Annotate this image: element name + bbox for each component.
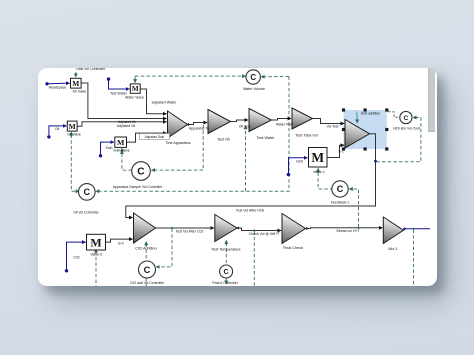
controller C C02 add Vol [138,261,155,278]
output port diamond Final Check [305,226,308,229]
wire dashed below C02-add C to page edge [145,278,147,286]
wire dashed from Stream wire up into Feedback-1 C [349,189,358,227]
output port diamond Mix-1 [402,227,405,230]
svg-text:Oil Valve: Oil Valve [67,132,81,136]
wire dashed tap x202 down into Apparatus-Sample C [151,124,203,169]
svg-text:Soln Valve: Soln Valve [113,148,130,152]
svg-text:Test Vol After C02: Test Vol After C02 [175,229,203,233]
svg-text:Test Vol After H2S: Test Vol After H2S [235,208,264,212]
wire B-4 from Valve-2 into CO2 Addition [105,239,132,242]
wire Test Vol After C02 to Test Temperature [155,227,213,229]
wire Oil Test to Test Water [230,120,248,122]
wire Test Water to Water Valve [108,80,129,89]
svg-text:M: M [131,85,138,93]
node Oil [47,135,50,138]
svg-text:H2S addition: H2S addition [360,111,380,115]
wire dashed Oil Valve bottom down to Oil Vol C [71,134,79,191]
svg-text:Soln: Soln [105,146,112,150]
wire dashed Total-Vol controller line to Water Volume C [135,75,246,77]
svg-text:Oil: Oil [54,127,59,131]
wire green arrow up into CO2-Addition triangle bottom [145,241,147,246]
gain block Mix-1 [383,217,403,244]
svg-text:M: M [68,121,75,130]
svg-text:adjusted Water: adjusted Water [151,100,176,104]
svg-text:Test Oil: Test Oil [217,137,230,141]
green annotation arrow H2S addition [355,111,358,123]
svg-text:M: M [90,235,101,249]
svg-text:Total Vol Controller: Total Vol Controller [75,68,105,71]
node C02 [64,269,67,272]
wire dashed below Valve-2 to page edge [95,251,97,286]
wire dashed Test-Temperature bottom to Final C [225,242,227,265]
junction on feedback wire [374,159,377,162]
node Test Water [106,77,109,80]
svg-text:Water Vlave: Water Vlave [125,95,144,99]
controller C H2S abs Vol [399,111,411,123]
wire Stream w/H+T to Mix-1 [305,226,382,229]
wire green drop into Air Valve top [74,72,76,77]
svg-text:C: C [143,264,150,274]
controller C Water Volume [246,69,260,83]
wire Mix-1 navy output stream [404,227,430,229]
gain block Test Oil [208,109,231,133]
svg-text:Test Water: Test Water [109,91,127,95]
wire Soln to Soln Valve [100,142,113,154]
node Headspace [45,82,48,85]
gain block C02 Addition [133,213,155,243]
valve block M Valve-2 [86,234,105,250]
svg-text:Oil Test: Oil Test [238,124,249,128]
wire Apparatus output to Test Oil [187,122,207,124]
wire S-2 from Valve-1 into selected block [327,145,344,157]
wire Check Vol to Final Check [237,228,281,231]
controller C Final [219,265,232,278]
svg-text:Adjusted Oil: Adjusted Oil [116,123,135,127]
svg-text:Test Temperature: Test Temperature [211,247,240,251]
svg-text:Valve-1: Valve-1 [312,169,324,173]
wire green arrow up into Valve-2 bottom [95,249,97,254]
svg-text:C: C [336,184,343,194]
svg-text:Apparatus-Sample Vol Controlle: Apparatus-Sample Vol Controller [112,185,162,189]
controller C Feedback-1 [331,180,347,196]
node H2S [286,172,290,176]
svg-text:S-2: S-2 [338,149,343,153]
svg-text:C02 add Vol Controller: C02 add Vol Controller [129,280,164,284]
svg-text:M: M [72,78,79,87]
gain block Test Water [249,108,272,131]
wire dashed from Check-Vol wire to page edge [253,231,255,286]
label Adjusted Soln boxed [139,133,169,139]
wire dashed Valve-1 bottom link to Feedback-1 C [318,172,333,189]
wire Adjusted Soln from Soln Valve to Test Apparatus [126,133,166,142]
svg-text:Apparatus Te: Apparatus Te [189,126,209,130]
svg-text:C: C [137,166,145,177]
svg-text:Test Total Vol: Test Total Vol [295,133,317,137]
valve block M Valve-1 [308,147,327,167]
wire dashed tap x245 up to Oil Test wire [244,125,246,191]
gain block Test Total Vol [292,108,313,129]
wire dashed below Mix-1 output to page edge [412,229,414,286]
wire dashed CO2-Addition bottom to C02-add C [145,243,147,261]
svg-text:C: C [223,268,228,276]
wire C02 to Valve-2 [66,242,85,269]
svg-text:Stream w/ H+T: Stream w/ H+T [336,229,360,233]
svg-text:Valve-2: Valve-2 [90,252,102,256]
svg-text:Adjusted Soln: Adjusted Soln [144,134,164,138]
wire dashed Vol-Test tap to H2S-abs C [376,117,421,161]
junction on Check Vol wire [253,229,255,231]
svg-text:C02: C02 [73,255,79,259]
wire green arrow up into Valve-1 bottom [317,168,319,173]
slide card [38,68,437,286]
wire Adjusted Air from Air Valve to Test Apparatus [81,83,166,119]
svg-text:Oil Vol Controller: Oil Vol Controller [73,210,99,214]
wire Adjusted Water from Water Valve to Test Apparatus [140,89,166,114]
gain block Test Apparatus [167,111,187,138]
selection highlight around Vol Test block [343,110,386,149]
svg-text:H2S abs Vol Cont: H2S abs Vol Cont [393,126,420,130]
wire green arrow up into Oil Valve bottom [70,132,72,137]
valve block M Oil Valve [67,121,77,131]
svg-text:Final # Controller: Final # Controller [212,281,239,285]
wire Water Test to Test Total Vol [271,118,291,120]
valve block M Water Valve [130,83,140,92]
junction on Test Vol After C02 wire [170,226,172,228]
svg-text:Test Apparatus: Test Apparatus [165,141,190,145]
svg-text:C02 Addition: C02 Addition [135,246,157,250]
svg-text:Air Valve: Air Valve [72,89,86,93]
wire dashed vertical x288 down to sample line into Oil Vol C [95,76,288,191]
wire dashed from H2S addition block to H2S-abs C [388,111,399,117]
svg-text:Feedback-1: Feedback-1 [330,200,349,204]
junction on Mix-1 output [412,227,414,229]
svg-text:Test Water: Test Water [256,135,275,139]
wire Oil to Oil Valve [48,125,66,134]
svg-text:Headspace: Headspace [48,85,66,89]
controller C Apparatus-Sample [131,161,150,180]
svg-text:M: M [311,150,324,165]
wire dashed into Water Volume C from right [261,75,289,77]
valve block M Air Valve [70,78,81,88]
scrollbar thumb [428,68,435,132]
wire dashed from Test-Vol-After-C02 wire into C02-add C [156,228,172,266]
controller C Oil Vol [78,183,95,200]
node Soln [98,154,101,157]
svg-text:M: M [116,138,124,147]
wire Headspace to Air Valve [48,82,69,85]
wire Vol Test signal into selected block [312,118,344,123]
wire dashed below Final C to page edge [225,278,227,284]
output port diamond Test Apparatus [186,122,189,125]
svg-text:C: C [403,114,408,121]
svg-text:Mix-1: Mix-1 [388,247,397,251]
gain block Test Temperature [214,214,236,241]
gain block Final Check [282,213,306,243]
selection handles [341,108,388,150]
wire green arrow up into Test-Temperature bottom [225,240,227,245]
junction on Stream wire [357,226,359,228]
svg-text:H2S: H2S [296,159,303,163]
svg-text:C: C [83,187,90,197]
output port diamond Test Temperature [236,226,239,229]
svg-text:B-4: B-4 [118,241,123,245]
svg-text:Final Check: Final Check [282,246,302,250]
wire H2S to Valve-1 [288,157,307,172]
svg-text:C: C [250,72,256,81]
wire green drop into Water Valve top [134,76,136,83]
svg-text:Check Vol @ H#l+T: Check Vol @ H#l+T [248,232,280,236]
svg-text:Water Test: Water Test [275,122,291,126]
valve block M Soln Valve [114,137,126,147]
wire dashed from Apparatus-Sample C to Soln Valve bottom [121,150,131,170]
svg-text:Water Volume: Water Volume [243,87,265,91]
wire Adjusted Oil from Oil Valve to Test Apparatus [77,121,166,126]
svg-text:Vol Test: Vol Test [326,124,338,128]
wire Test Vol After H2S feedback loop [125,133,375,217]
gain block Vol Test (selected) [345,119,370,148]
wire green arrow up into Soln Valve bottom [120,148,122,153]
